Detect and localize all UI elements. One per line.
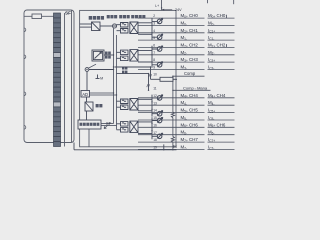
svg-text:Comp→Mana: Comp→Mana: [183, 85, 208, 90]
svg-text:15: 15: [153, 116, 157, 120]
svg-text:7: 7: [153, 51, 155, 55]
svg-text:13: 13: [153, 101, 157, 105]
svg-text:M: M: [100, 76, 103, 80]
svg-text:12: 12: [153, 94, 157, 98]
svg-text:11: 11: [153, 86, 157, 90]
svg-text:4: 4: [153, 29, 155, 33]
svg-text:9: 9: [153, 66, 155, 70]
svg-text:14: 14: [153, 109, 157, 113]
svg-text:M: M: [173, 144, 177, 149]
svg-text:5: 5: [153, 36, 155, 40]
svg-text:16: 16: [153, 123, 157, 127]
svg-text:18: 18: [153, 138, 157, 142]
svg-text:10: 10: [153, 72, 157, 76]
svg-text:8: 8: [153, 58, 155, 62]
svg-text:19: 19: [153, 146, 157, 150]
svg-text:AD: AD: [82, 92, 88, 97]
svg-text:L+: L+: [155, 4, 159, 8]
svg-text:17: 17: [153, 131, 157, 135]
svg-text:24V: 24V: [175, 8, 182, 12]
svg-text:Comp: Comp: [184, 71, 196, 76]
svg-text:3: 3: [153, 22, 155, 26]
svg-text:6: 6: [153, 44, 155, 48]
svg-text:SF: SF: [106, 121, 112, 126]
svg-text:SF: SF: [65, 11, 71, 16]
svg-text:2: 2: [153, 14, 155, 18]
